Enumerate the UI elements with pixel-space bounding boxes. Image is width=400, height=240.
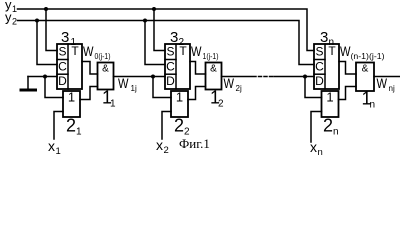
svg-text:T: T [71,44,79,58]
wire y2 to C of trigger 3_2 [145,21,165,65]
svg-text:n: n [318,147,323,155]
junction dot D2 [151,75,155,79]
svg-text:W: W [340,44,351,59]
svg-text:1: 1 [56,146,61,155]
svg-text:2: 2 [164,145,169,155]
wire delay 2_1 output to AND 1_1 [80,87,98,100]
svg-text:1: 1 [110,99,116,110]
wire delay 2_n output to AND 1_n [339,87,357,100]
svg-text:W: W [83,44,94,59]
delay 2_n box [322,91,339,117]
svg-text:D: D [58,74,67,88]
wire Wnj output [374,76,400,78]
wire y2 bus [18,21,315,65]
svg-text:&: & [102,64,109,75]
wire W(n-1)j to trigger 3_n [274,76,314,78]
svg-text:1: 1 [76,127,82,138]
junction dot y2-C2 [143,19,147,23]
svg-text:2: 2 [66,116,76,136]
svg-text:T: T [179,44,187,58]
svg-text:2: 2 [12,16,17,26]
svg-text:S: S [315,45,323,59]
trigger 3_2 box [165,44,190,89]
wire trigger 3_1 output to AND 1_1 [82,62,98,75]
svg-text:W: W [118,76,129,91]
wire x1 input [54,112,63,140]
svg-text:x: x [156,137,163,153]
wire ground to D of trigger 3_1 [28,76,57,78]
svg-text:n: n [333,127,339,138]
svg-text:2: 2 [218,99,224,110]
svg-text:T: T [328,44,336,58]
wire xn input [311,112,322,143]
svg-text:3: 3 [170,29,178,46]
svg-text:3: 3 [61,29,69,46]
wire node Dn down to delay 2_n [305,77,322,98]
junction dot D1 [43,75,47,79]
svg-text:1: 1 [326,90,333,105]
svg-text:3: 3 [320,29,328,46]
svg-text:C: C [58,60,67,74]
wire y1 to S of trigger 3_2 [154,9,165,51]
wire x2 input [162,112,171,140]
svg-text:D: D [315,74,324,88]
AND gate 1_2 box [206,63,222,90]
junction dot Dn [303,75,307,79]
wire y1 to S of trigger 3_1 [46,9,57,51]
svg-text:x: x [310,139,317,155]
wire W2j from AND 1_2 [222,76,257,78]
delay 2_1 box [63,91,80,117]
svg-text:1(j-1): 1(j-1) [203,52,219,61]
svg-text:(n-1)(j-1): (n-1)(j-1) [351,52,385,61]
wire trigger 3_n output to AND 1_n [339,62,356,75]
svg-text:S: S [166,45,174,59]
AND gate 1_n box [356,63,374,92]
svg-text:Фиг.1: Фиг.1 [179,136,210,151]
svg-text:C: C [166,60,175,74]
junction dot y2-C1 [35,19,39,23]
svg-text:2: 2 [323,116,333,136]
svg-text:W: W [377,76,388,91]
svg-text:&: & [362,64,369,75]
svg-text:y: y [5,9,12,24]
ellipsis dashes [259,76,273,78]
wire W1j from AND 1_1 to trigger 3_2 [114,76,166,78]
svg-text:1: 1 [68,90,75,105]
svg-text:W: W [224,76,235,91]
junction dot y1-S2 [152,7,156,11]
wire node D2 down to delay 2_2 [153,77,171,98]
wire y1 bus [18,9,315,51]
trigger 3_n box [314,44,339,89]
svg-text:nj: nj [389,84,395,93]
svg-text:1: 1 [12,4,17,14]
junction dot y1-S1 [44,7,48,11]
AND gate 1_1 box [98,63,114,90]
svg-text:2: 2 [174,116,184,136]
delay 2_2 box [171,91,188,117]
wire node D1 down to delay 2_1 [45,77,63,98]
wire trigger 3_2 output to AND 1_2 [190,62,206,75]
svg-text:0(j-1): 0(j-1) [95,52,111,61]
svg-text:S: S [58,45,66,59]
wire y2 to C of trigger 3_1 [37,21,57,65]
wire delay 2_2 output to AND 1_2 [188,87,206,100]
svg-text:1j: 1j [131,84,137,93]
svg-text:&: & [210,64,217,75]
ground [27,77,29,91]
trigger 3_1 box [57,44,82,89]
svg-text:2j: 2j [236,84,242,93]
svg-text:n: n [370,100,376,111]
svg-text:D: D [166,74,175,88]
svg-text:1: 1 [176,90,183,105]
svg-text:C: C [315,60,324,74]
svg-text:x: x [48,138,55,154]
svg-text:W: W [191,44,202,59]
